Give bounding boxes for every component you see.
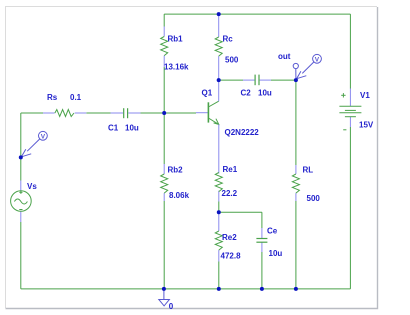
resistor Rs (43, 110, 86, 117)
svg-text:out: out (278, 52, 291, 61)
label Rb2 (168, 166, 184, 175)
label C2 (241, 89, 252, 98)
label Ce (267, 227, 278, 236)
svg-text:10u: 10u (269, 249, 283, 258)
svg-text:C1: C1 (108, 124, 119, 133)
node out (293, 63, 298, 78)
svg-text:10u: 10u (125, 124, 139, 133)
svg-text:13.16k: 13.16k (164, 63, 189, 72)
value 13.16k (164, 63, 189, 72)
value 10u Ce (269, 249, 283, 258)
svg-text:500: 500 (307, 194, 321, 203)
label Rc (223, 35, 234, 44)
value 500 Rc (225, 56, 239, 65)
svg-text:Re2: Re2 (222, 233, 237, 242)
svg-text:Rc: Rc (223, 35, 234, 44)
svg-text:Re1: Re1 (223, 165, 238, 174)
capacitor C1 (111, 108, 141, 118)
resistor Rb2 (161, 164, 168, 201)
svg-text:V1: V1 (360, 91, 370, 100)
label Vs (27, 182, 37, 191)
svg-text:V: V (315, 56, 320, 63)
value 10u C2 (258, 89, 272, 98)
label C1 (108, 124, 119, 133)
wire Rb2 top (163, 113, 165, 164)
wire Ce top (261, 212, 263, 228)
junction RL bottom (294, 287, 298, 291)
wire Rb1 top (163, 14, 165, 26)
label out (278, 52, 291, 61)
label Re1 (223, 165, 238, 174)
value Q2N2222 (225, 128, 260, 137)
wire left vertical upper (20, 113, 22, 181)
wire Re1 bottom (218, 202, 220, 213)
probe V at out (297, 54, 322, 78)
junction probe Vs (19, 155, 23, 159)
wire Re2 bottom (218, 262, 220, 289)
wire V1 bottom (349, 127, 351, 289)
svg-text:0.1: 0.1 (70, 93, 82, 102)
label Re2 (222, 233, 237, 242)
wire C2 left (219, 79, 243, 81)
svg-text:8.06k: 8.06k (169, 191, 190, 200)
svg-text:10u: 10u (258, 89, 272, 98)
svg-text:15V: 15V (359, 121, 374, 130)
resistor Rc (215, 16, 222, 80)
value 472.8 (221, 252, 242, 261)
wire out column (295, 80, 297, 165)
svg-text:Rb2: Rb2 (168, 166, 184, 175)
label 0 (169, 302, 174, 311)
wire Ce bottom (261, 252, 263, 289)
svg-text:500: 500 (225, 56, 239, 65)
wire Rs to C1 (86, 112, 110, 114)
capacitor Ce (256, 228, 267, 252)
svg-text:472.8: 472.8 (221, 252, 242, 261)
svg-text:Q1: Q1 (202, 89, 213, 98)
wire Ce branch (219, 211, 262, 213)
wire input left (21, 112, 43, 114)
value 500 RL (307, 194, 321, 203)
capacitor C2 (243, 75, 271, 86)
junction ground (162, 287, 166, 291)
probe V at Vs (21, 131, 47, 156)
value 0.1 (70, 93, 82, 102)
svg-text:Rs: Rs (47, 93, 58, 102)
label RL (303, 166, 314, 175)
junction Re1 Re2 (217, 210, 221, 214)
wire C1 to base (141, 112, 197, 114)
junction Ce bottom (260, 287, 264, 291)
svg-text:22.2: 22.2 (222, 189, 238, 198)
source V1 (339, 89, 361, 130)
label Rs (47, 93, 58, 102)
wire top rail (164, 13, 350, 15)
junction top Rc (217, 12, 221, 16)
wire Rb2 bottom (163, 201, 165, 289)
resistor Re1 (215, 173, 222, 202)
wire V1 top (349, 14, 351, 88)
value 15V (359, 121, 374, 130)
wire RL bottom (295, 201, 297, 289)
wire bottom rail (21, 288, 351, 290)
value 22.2 (222, 189, 238, 198)
resistor RL (292, 165, 299, 201)
junction out (294, 78, 298, 82)
value 10u C1 (125, 124, 139, 133)
svg-text:V: V (41, 133, 46, 140)
svg-text:RL: RL (303, 166, 314, 175)
wire C2 right (271, 79, 296, 81)
value 8.06k (169, 191, 190, 200)
svg-text:C2: C2 (241, 89, 252, 98)
svg-text:Rb1: Rb1 (168, 35, 184, 44)
label Q1 (202, 89, 213, 98)
svg-text:Ce: Ce (267, 227, 278, 236)
svg-text:Q2N2222: Q2N2222 (225, 128, 260, 137)
junction base (162, 111, 166, 115)
source Vs (11, 181, 32, 223)
resistor Rb1 (161, 27, 168, 68)
wire Rb1 bottom (163, 67, 165, 113)
svg-text:Vs: Vs (27, 182, 37, 191)
wire left vertical lower (20, 222, 22, 289)
ground (159, 289, 170, 306)
label V1 (360, 91, 370, 100)
junction Re2 bottom (217, 287, 221, 291)
junction collector C2 (217, 78, 221, 82)
resistor Re2 (215, 212, 222, 261)
transistor Q1 (196, 80, 219, 173)
svg-text:0: 0 (169, 302, 174, 311)
label Rb1 (168, 35, 184, 44)
